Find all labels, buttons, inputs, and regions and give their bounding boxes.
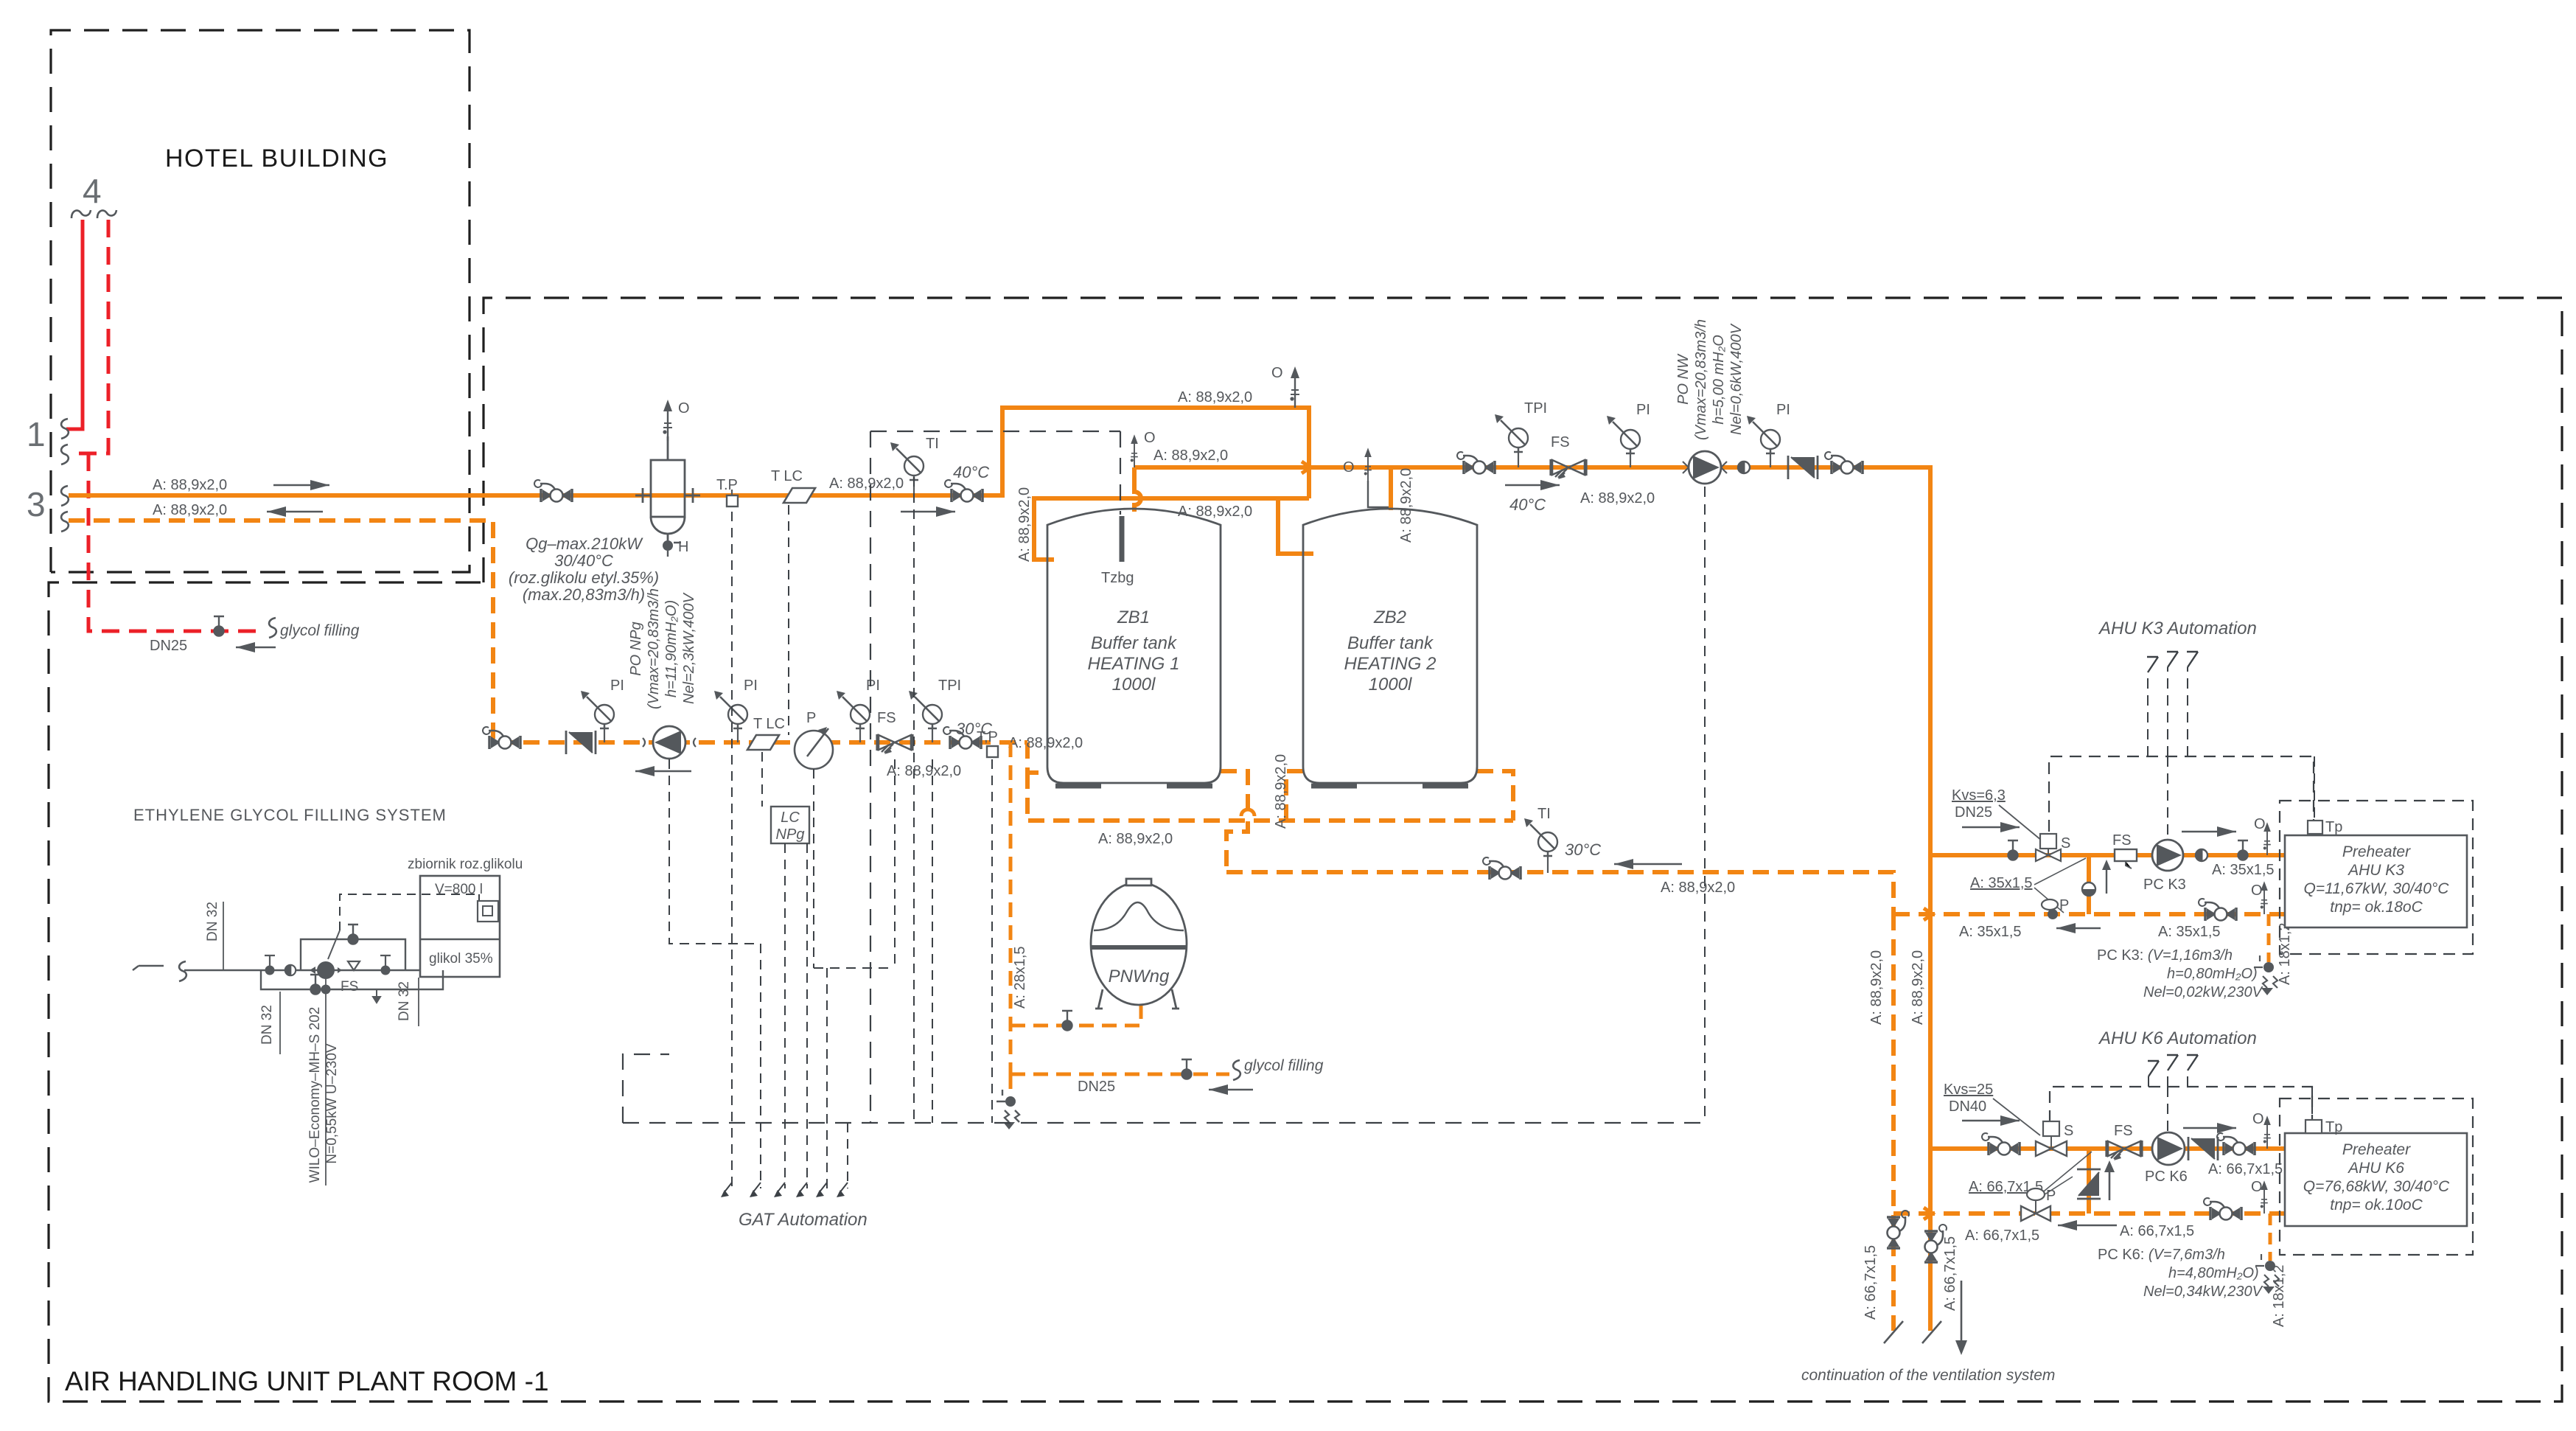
- valve on supply main left: [534, 480, 572, 502]
- svg-text:Q=76,68kW, 30/40°C: Q=76,68kW, 30/40°C: [2303, 1178, 2450, 1195]
- plant room boundary AIR HANDLING UNIT PLANT ROOM -1: [49, 298, 2562, 1402]
- svg-text:O: O: [1343, 459, 1355, 476]
- svg-text:ETHYLENE GLYCOL FILLING SYS: ETHYLENE GLYCOL FILLING SYSTEM: [133, 806, 447, 824]
- svg-text:V=800 l: V=800 l: [435, 882, 483, 897]
- svg-text:FS: FS: [1551, 434, 1570, 450]
- svg-text:TI: TI: [1537, 806, 1551, 822]
- label PO NW pump data (rotated): [1675, 319, 1745, 440]
- control box LC NPg: [771, 807, 809, 843]
- svg-text:P: P: [2046, 1188, 2056, 1204]
- gauge PI return 2: [737, 725, 739, 742]
- pump PO NW: [1683, 451, 1727, 484]
- valve on K6 return: [2204, 1198, 2241, 1220]
- label tank ZB1: [1088, 607, 1180, 694]
- svg-text:30°C: 30°C: [1565, 840, 1601, 859]
- wire branch glycol filling: [1010, 1073, 1229, 1076]
- svg-text:A: 88,9x2,0: A: 88,9x2,0: [1178, 389, 1252, 405]
- valve on glycol filling branch: [1181, 1059, 1192, 1079]
- svg-text:h=5,00 mH₂O: h=5,00 mH₂O: [1711, 335, 1727, 425]
- chevron at K6 return junction: [1924, 1208, 1933, 1219]
- svg-text:A: 88,9x2,0: A: 88,9x2,0: [887, 763, 961, 779]
- sensor Tp K3: [2314, 756, 2315, 821]
- svg-text:A: 66,7x1,5: A: 66,7x1,5: [2208, 1161, 2283, 1177]
- valve lower run: [1483, 857, 1521, 880]
- svg-text:O: O: [1271, 365, 1283, 381]
- svg-text:AHU K3: AHU K3: [2347, 862, 2404, 879]
- svg-text:A: 28x1,5: A: 28x1,5: [1012, 946, 1028, 1009]
- drain tick glycol bypass bottom: [373, 989, 380, 1003]
- gauge TPI right main: [1518, 448, 1519, 467]
- automation box K6: [2050, 1087, 2312, 1122]
- svg-text:A: 66,7x1,5: A: 66,7x1,5: [1863, 1245, 1879, 1320]
- break symbols riser 4: [71, 210, 116, 218]
- svg-text:A: 18x1,2: A: 18x1,2: [2271, 1264, 2287, 1327]
- svg-text:DN 32: DN 32: [205, 902, 220, 941]
- valve P three-way on K6 return: [2027, 1188, 2045, 1200]
- svg-text:T.P: T.P: [716, 477, 738, 493]
- wire ZB2 bottom left outlet: [1286, 771, 1303, 821]
- svg-text:O: O: [2254, 816, 2266, 832]
- svg-text:tnp= ok.18oC: tnp= ok.18oC: [2330, 899, 2423, 916]
- arrow right above K3: [2182, 831, 2236, 832]
- valve P on K3 return: [2042, 899, 2058, 910]
- label Qg annotation: [509, 535, 659, 604]
- balancing valve P on return: [795, 727, 833, 769]
- svg-text:A: 88,9x2,0: A: 88,9x2,0: [153, 477, 227, 493]
- wire K3 return (orange dashed): [1893, 912, 2285, 916]
- svg-text:Tp: Tp: [2325, 1119, 2342, 1135]
- svg-text:PNWng: PNWng: [1109, 967, 1170, 986]
- svg-text:A: 88,9x2,0: A: 88,9x2,0: [1016, 487, 1033, 562]
- svg-text:AHU K6 Automation: AHU K6 Automation: [2098, 1028, 2257, 1048]
- GAT boundary bottom edge: [623, 1054, 1705, 1123]
- control drop balancing valve P: [807, 769, 895, 1188]
- svg-text:A: 88,9x2,0: A: 88,9x2,0: [829, 476, 904, 492]
- preheater K6 box: [2285, 1133, 2467, 1226]
- filter on K6 bypass: [2077, 1169, 2101, 1199]
- pump glycol WILO: [317, 961, 335, 979]
- svg-text:HEATING 2: HEATING 2: [1344, 654, 1437, 674]
- break glycol filling: [269, 618, 276, 638]
- filter right main: [1788, 456, 1818, 479]
- svg-text:O: O: [1144, 430, 1156, 446]
- preheater K3 dashed box: [2280, 801, 2473, 954]
- svg-text:40°C: 40°C: [1509, 495, 1546, 514]
- wire return lower run to AHU riser: [1226, 872, 1893, 914]
- svg-text:NPg: NPg: [776, 826, 805, 843]
- drain branch K6: [2269, 1214, 2272, 1261]
- svg-text:Nel=0,34kW,230V: Nel=0,34kW,230V: [2143, 1284, 2263, 1300]
- hotel building boundary box: [51, 30, 470, 572]
- svg-text:A: 88,9x2,0: A: 88,9x2,0: [1910, 950, 1926, 1025]
- svg-text:P: P: [806, 710, 816, 726]
- wire red supply riser 4 to 1: [66, 220, 83, 429]
- GAT boundary dashed box top: [870, 431, 1120, 515]
- valve FS K6: [2106, 1141, 2142, 1160]
- wire K6 supply (orange): [1931, 1146, 2285, 1151]
- chevron flow marker at supply junction: [1302, 462, 1310, 473]
- svg-text:O: O: [2252, 1111, 2264, 1127]
- svg-text:Kvs=25: Kvs=25: [1944, 1082, 1993, 1098]
- expansion vessel PNWng: [1091, 879, 1187, 1009]
- GAT boundary left edge: [870, 431, 871, 1123]
- check valve glycol: [285, 965, 296, 975]
- control drop to pump PC K3: [2167, 756, 2168, 840]
- sensor Tzbg: [1120, 516, 1125, 562]
- ball valve dot K3 return left: [2048, 909, 2058, 919]
- svg-text:A: 88,9x2,0: A: 88,9x2,0: [1153, 448, 1228, 464]
- valve on glycol bypass bottom: [310, 975, 321, 995]
- arrow left on glycol fill: [236, 647, 276, 648]
- svg-text:DN 32: DN 32: [259, 1005, 275, 1045]
- valve on supply before riser: [945, 480, 982, 502]
- air separator: [635, 436, 700, 541]
- vent O K6 return: [2261, 1180, 2268, 1214]
- control drop below LC NPg box: [784, 843, 786, 1188]
- arrow up K6 bypass: [2109, 1166, 2111, 1200]
- svg-text:Nel=0,6kW,400V: Nel=0,6kW,400V: [1728, 323, 1745, 435]
- label tank ZB2: [1344, 607, 1437, 694]
- filter on K6 supply: [2188, 1137, 2218, 1160]
- svg-text:A: 66,7x1,5: A: 66,7x1,5: [1965, 1228, 2039, 1244]
- automation risers K3: [2148, 667, 2188, 756]
- valve glycol main 2: [381, 966, 391, 975]
- valve on glycol bypass top: [348, 925, 358, 944]
- break supply riser bottom: [1922, 1321, 1941, 1343]
- leader lines A 35x1,5 to valve: [2034, 858, 2086, 913]
- svg-text:TPI: TPI: [1524, 400, 1547, 417]
- tank ZB2 buffer tank: [1303, 509, 1477, 786]
- svg-text:PC K6: (V=7,6m3/h: PC K6: (V=7,6m3/h: [2098, 1247, 2225, 1263]
- pump PC K3: [2152, 840, 2183, 871]
- control drop FS return: [894, 759, 896, 968]
- check valve right main: [1738, 462, 1750, 473]
- sensor Tp K6: [2311, 1087, 2313, 1120]
- wire expansion branch A:28x1,5 (orange dashed): [1009, 742, 1013, 1074]
- wire K6 bypass stub: [2087, 1149, 2091, 1214]
- vent O on top run: [1290, 366, 1299, 408]
- svg-text:FS: FS: [2112, 832, 2132, 849]
- flow switch FS K3: [2115, 849, 2137, 861]
- svg-text:Q=11,67kW, 30/40°C: Q=11,67kW, 30/40°C: [2304, 880, 2450, 897]
- svg-text:H: H: [678, 539, 688, 555]
- break glycol filling mid: [1233, 1060, 1240, 1080]
- arrow left under pump PO NPg: [635, 770, 691, 772]
- wire K3 supply (orange): [1931, 853, 2285, 857]
- svg-text:A: 88,9x2,0: A: 88,9x2,0: [1008, 735, 1083, 751]
- svg-text:PC K6: PC K6: [2145, 1169, 2188, 1185]
- valve on K6 supply right: [2217, 1133, 2255, 1155]
- svg-text:PI: PI: [1776, 402, 1790, 418]
- check valve K3: [2196, 849, 2207, 861]
- relief valve FS glycol: [348, 961, 360, 970]
- svg-text:A: 88,9x2,0: A: 88,9x2,0: [1661, 880, 1735, 896]
- wire return TP corner to ZB1 bottom left: [1027, 742, 1049, 773]
- svg-text:O: O: [2251, 1179, 2263, 1195]
- wire supply main 88.9x2.0 (orange): [69, 408, 1309, 498]
- control drop PO NW pump (dashed): [1704, 487, 1706, 1123]
- svg-text:h=11,90mH₂O): h=11,90mH₂O): [663, 600, 680, 697]
- wire return main 88.9x2.0 (orange dashed): [69, 520, 1027, 742]
- glycol tank zbiornik: [420, 876, 500, 977]
- vent O on separator: [663, 400, 672, 441]
- tank ZB1 buffer tank: [1047, 509, 1221, 786]
- svg-text:(Vmax=20,83m3/h: (Vmax=20,83m3/h: [646, 588, 662, 709]
- sensor T LC on supply: [783, 488, 815, 503]
- valve on glycol fill line DN25: [214, 616, 224, 636]
- svg-text:(Vmax=20,83m3/h: (Vmax=20,83m3/h: [1693, 319, 1709, 440]
- svg-text:T LC: T LC: [771, 468, 803, 484]
- svg-text:LC: LC: [781, 809, 800, 826]
- drain H on separator: [663, 540, 673, 551]
- wire supply right main to AHU riser: [1134, 467, 1930, 1331]
- arrow left return left: [267, 511, 323, 512]
- svg-text:P: P: [2059, 897, 2069, 913]
- svg-text:glycol filling: glycol filling: [280, 622, 360, 639]
- svg-text:h=0,80mH₂O): h=0,80mH₂O): [2167, 966, 2258, 982]
- control drop sensor T,P return: [991, 759, 993, 1123]
- svg-text:O: O: [678, 400, 690, 417]
- svg-text:A: 66,7x1,5: A: 66,7x1,5: [2120, 1223, 2194, 1239]
- svg-text:A: 88,9x2,0: A: 88,9x2,0: [1868, 950, 1885, 1025]
- arrow right K6 inlet: [1962, 1120, 2020, 1121]
- control drop TPI return: [848, 759, 932, 1188]
- svg-text:FS: FS: [341, 979, 358, 995]
- wire ZB1 bottom right outlet: [1221, 771, 1248, 872]
- sensor T LC on return: [747, 735, 779, 750]
- wire branch to PNWng vessel: [1010, 1005, 1141, 1026]
- wire red glycol fill drop (dashed): [88, 453, 265, 631]
- svg-text:A: 35x1,5: A: 35x1,5: [1970, 875, 2033, 891]
- svg-text:30/40°C: 30/40°C: [554, 551, 613, 570]
- svg-text:(roz.glikolu etyl.35%): (roz.glikolu etyl.35%): [509, 568, 659, 587]
- glycol pump drop line: [325, 979, 327, 1185]
- svg-text:Buffer tank: Buffer tank: [1091, 633, 1178, 653]
- svg-text:S: S: [2061, 835, 2070, 852]
- arrow left K6 return: [2058, 1225, 2117, 1226]
- svg-text:PI: PI: [1636, 402, 1650, 418]
- level switch in glycol tank: [478, 901, 498, 922]
- svg-text:1000l: 1000l: [1112, 675, 1156, 694]
- svg-text:TPI: TPI: [938, 678, 961, 694]
- control drop sensor T LC supply: [762, 505, 789, 807]
- wire branch drain: [1009, 1074, 1013, 1097]
- wire K3 bypass stub: [2087, 855, 2091, 914]
- svg-text:A: 88,9x2,0: A: 88,9x2,0: [1273, 754, 1289, 829]
- valve on right main after junction: [1457, 452, 1495, 474]
- preheater K3 box: [2285, 835, 2467, 927]
- svg-text:4: 4: [83, 172, 102, 210]
- svg-text:h=4,80mH₂O): h=4,80mH₂O): [2168, 1265, 2259, 1281]
- svg-text:A: 88,9x2,0: A: 88,9x2,0: [1580, 490, 1655, 506]
- svg-text:A: 88,9x2,0: A: 88,9x2,0: [1098, 831, 1173, 847]
- glycol bypass bottom: [261, 970, 443, 989]
- wire red return riser 4 (dashed): [69, 220, 108, 453]
- arrow left K3 return: [2056, 927, 2101, 929]
- valve drain on K3 supply: [2008, 840, 2018, 860]
- leader lines K6: [2040, 1152, 2092, 1197]
- svg-text:AIR HANDLING UNIT PLANT ROOM: AIR HANDLING UNIT PLANT ROOM -1: [65, 1366, 549, 1396]
- svg-text:Nel=0,02kW,230V: Nel=0,02kW,230V: [2143, 984, 2263, 1000]
- svg-text:PI: PI: [744, 678, 758, 694]
- valve glycol main 1: [265, 966, 275, 975]
- gauge PI right main 1: [1630, 450, 1631, 467]
- svg-text:O: O: [2251, 882, 2263, 899]
- svg-text:PO NPg: PO NPg: [628, 622, 644, 675]
- svg-text:DN25: DN25: [1078, 1079, 1115, 1095]
- svg-text:WILO–Economy–MH–S 202: WILO–Economy–MH–S 202: [307, 1007, 323, 1183]
- svg-text:DN25: DN25: [150, 638, 187, 654]
- control drop thermometer TI: [913, 477, 915, 1123]
- svg-text:glikol 35%: glikol 35%: [429, 951, 493, 967]
- arrow down continuation: [1961, 1281, 1963, 1342]
- wire ZB1 apex riser with jump: [1134, 467, 1141, 512]
- gauge PI return 3: [859, 725, 861, 742]
- svg-text:3: 3: [27, 485, 46, 523]
- svg-text:A: 88,9x2,0: A: 88,9x2,0: [1398, 468, 1414, 543]
- break return riser bottom: [1884, 1321, 1903, 1343]
- svg-text:zbiornik roz.glikolu: zbiornik roz.glikolu: [408, 857, 523, 872]
- control valve S K6 three-way: [2043, 1121, 2059, 1136]
- arrow up K3 bypass: [2106, 864, 2107, 894]
- valve on supply riser bottom: [1924, 1225, 1947, 1262]
- label PO NPg pump data (rotated): [628, 588, 697, 709]
- svg-text:T,P: T,P: [977, 729, 998, 745]
- svg-text:PO NW: PO NW: [1675, 353, 1692, 405]
- svg-text:Preheater: Preheater: [2342, 843, 2411, 860]
- svg-text:Qg–max.210kW: Qg–max.210kW: [526, 535, 643, 553]
- sensor T.P on supply: [727, 495, 738, 506]
- svg-text:A: 88,9x2,0: A: 88,9x2,0: [1178, 504, 1252, 520]
- sensor T,P on return: [987, 746, 998, 757]
- filter on return: [566, 731, 596, 754]
- svg-text:HEATING 1: HEATING 1: [1088, 654, 1180, 674]
- svg-text:PI: PI: [866, 678, 880, 694]
- svg-text:Nel=2,3kW,400V: Nel=2,3kW,400V: [681, 592, 697, 704]
- gauge TPI return: [932, 725, 933, 742]
- gauge PI right main 2: [1770, 450, 1771, 467]
- control drop pump PO NPg: [669, 759, 761, 1188]
- arrow tick glycol main left: [133, 966, 164, 970]
- wire ZB2 apex riser: [1389, 467, 1393, 510]
- wire AHU return riser (orange dashed): [1891, 914, 1896, 1331]
- wire ZB2 inlet left elbow: [1278, 498, 1313, 554]
- wire supply line B to tank ZB1 inlet: [1034, 498, 1309, 560]
- svg-text:DN40: DN40: [1949, 1099, 1986, 1115]
- svg-text:HOTEL BUILDING: HOTEL BUILDING: [165, 145, 388, 173]
- svg-text:A: 35x1,5: A: 35x1,5: [1959, 924, 2022, 940]
- valve on vessel branch: [1062, 1011, 1072, 1031]
- svg-text:Kvs=6,3: Kvs=6,3: [1952, 787, 2006, 804]
- wire ZB2 bottom right outlet: [1477, 771, 1513, 821]
- arrow right 40C right main: [1505, 484, 1560, 486]
- jump return crossing at ZB1 outlet: [1241, 809, 1254, 816]
- svg-text:A: 35x1,5: A: 35x1,5: [2158, 924, 2221, 940]
- svg-text:A: 88,9x2,0: A: 88,9x2,0: [153, 502, 227, 518]
- vent O at ZB2: [1368, 481, 1389, 507]
- svg-text:PC K3: (V=1,16m3/h: PC K3: (V=1,16m3/h: [2097, 947, 2233, 964]
- svg-text:T LC: T LC: [753, 716, 785, 732]
- svg-text:S: S: [2064, 1123, 2073, 1139]
- thermometer TI lower run: [1547, 852, 1549, 873]
- thermometer TI supply: [913, 477, 915, 495]
- svg-text:A: 35x1,5: A: 35x1,5: [2212, 862, 2275, 878]
- svg-text:PI: PI: [610, 678, 624, 694]
- valve on return riser bottom: [1887, 1211, 1909, 1248]
- svg-text:DN 32: DN 32: [397, 981, 412, 1021]
- glycol main line: [184, 969, 420, 972]
- arrow right supply left: [273, 484, 329, 486]
- svg-text:FS: FS: [2114, 1123, 2133, 1139]
- balance valve on K3 bypass: [2082, 882, 2095, 896]
- drain branch K3: [2267, 914, 2271, 962]
- arrow left glycol mid: [1209, 1089, 1253, 1090]
- valve on K3 return: [2199, 899, 2236, 921]
- valve return after corner: [483, 727, 520, 749]
- chevron at K3 return junction: [1924, 908, 1933, 920]
- wire K6 return (orange dashed): [1893, 1211, 2285, 1216]
- svg-text:GAT Automation: GAT Automation: [739, 1210, 868, 1230]
- break symbols node 3: [61, 486, 69, 506]
- pump PC K6: [2152, 1132, 2185, 1165]
- svg-text:Buffer tank: Buffer tank: [1347, 633, 1434, 653]
- svg-text:glycol filling: glycol filling: [1244, 1057, 1324, 1074]
- gauge PI return 1: [604, 725, 605, 742]
- automation box K3: [2049, 756, 2314, 832]
- valve FS right main: [1551, 459, 1586, 479]
- pump PO NPg: [643, 726, 696, 759]
- svg-text:Tp: Tp: [2325, 819, 2342, 835]
- svg-text:1000l: 1000l: [1369, 675, 1412, 694]
- svg-text:(max.20,83m3/h): (max.20,83m3/h): [523, 585, 645, 604]
- svg-text:Tzbg: Tzbg: [1101, 570, 1134, 586]
- wire return under-tank run: [1027, 773, 1513, 821]
- svg-text:FS: FS: [877, 710, 896, 726]
- vent O K3 return: [2261, 881, 2268, 914]
- arrow right to tank ZB1: [901, 511, 955, 512]
- arrow left lower run: [1614, 863, 1682, 865]
- svg-text:Preheater: Preheater: [2342, 1141, 2411, 1158]
- vent O at ZB1 feed: [1131, 434, 1138, 467]
- control valve S K3: [2040, 834, 2056, 849]
- vent O K6 supply: [2263, 1115, 2271, 1149]
- svg-text:AHU K6: AHU K6: [2347, 1160, 2404, 1177]
- control drop to pump PC K6: [2167, 1087, 2168, 1134]
- svg-text:AHU K3 Automation: AHU K3 Automation: [2098, 619, 2257, 638]
- svg-text:40°C: 40°C: [953, 463, 989, 481]
- svg-text:continuation of the ventila: continuation of the ventilation system: [1801, 1367, 2055, 1384]
- glycol bypass top: [301, 939, 405, 970]
- valve return before TP: [943, 727, 981, 749]
- glycol control dashed to tank: [340, 894, 479, 930]
- svg-text:PC K3: PC K3: [2143, 877, 2186, 893]
- arrow right above K6: [2183, 1127, 2236, 1129]
- svg-text:DN25: DN25: [1955, 804, 1992, 821]
- valve drain on K3 supply right: [2238, 840, 2248, 860]
- valve on K6 supply left: [1982, 1133, 2020, 1155]
- control drop sensor T.P supply: [731, 512, 733, 1188]
- preheater K6 dashed box: [2280, 1099, 2473, 1255]
- valve FS return: [877, 734, 912, 754]
- arrow right K3 inlet: [1962, 826, 2020, 828]
- svg-text:A: 66,7x1,5: A: 66,7x1,5: [1942, 1236, 1958, 1311]
- svg-text:ZB1: ZB1: [1117, 607, 1150, 627]
- break symbols node 1: [61, 419, 69, 439]
- svg-text:ZB2: ZB2: [1373, 607, 1406, 627]
- valve right main end: [1825, 452, 1863, 474]
- svg-text:TI: TI: [926, 436, 939, 452]
- svg-text:tnp= ok.10oC: tnp= ok.10oC: [2330, 1197, 2423, 1214]
